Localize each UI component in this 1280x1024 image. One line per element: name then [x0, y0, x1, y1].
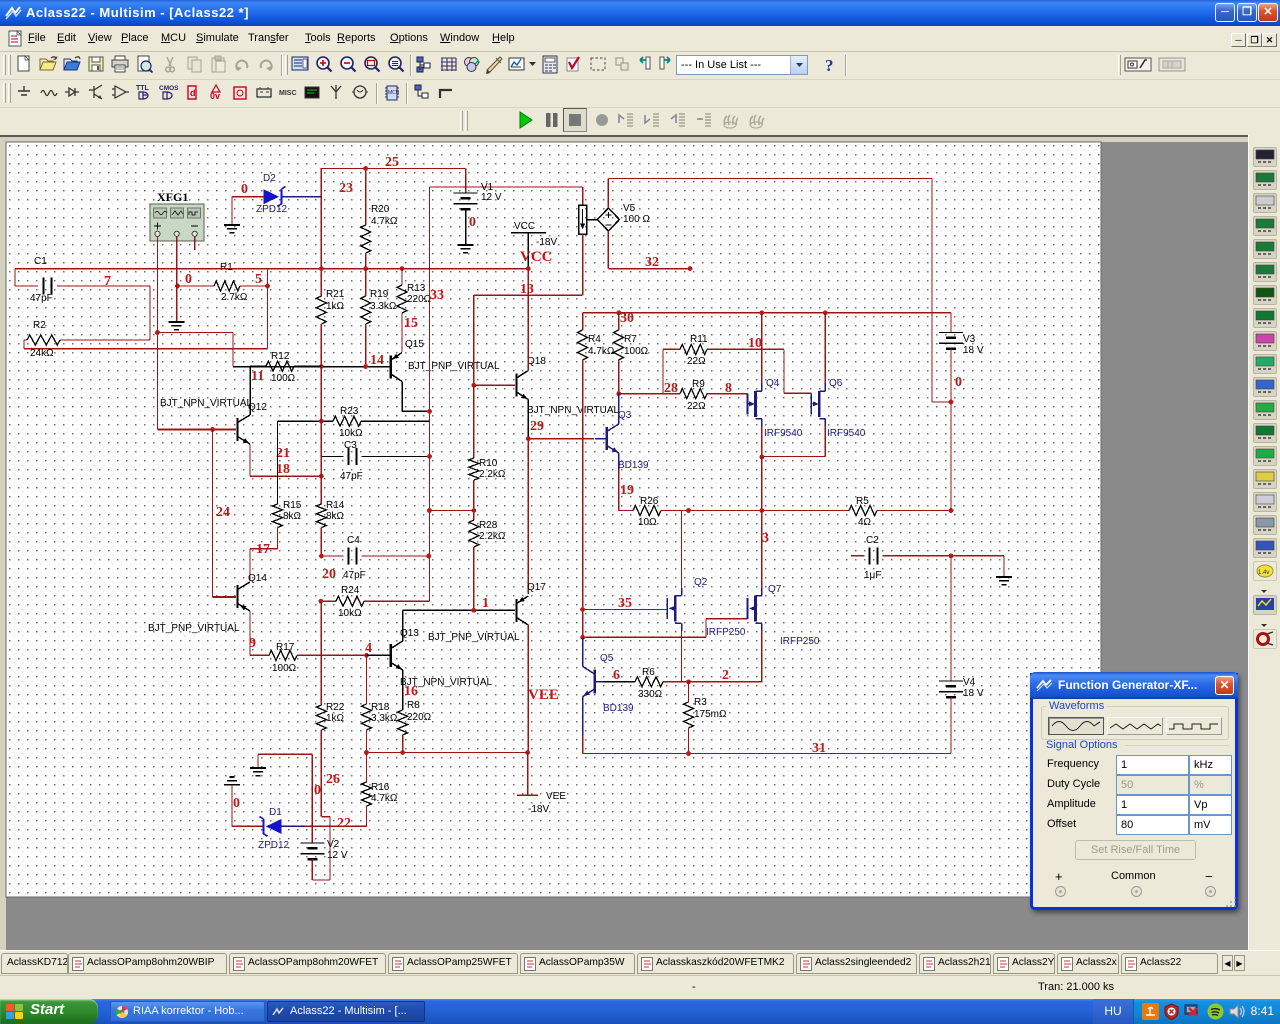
resistor R26 [619, 510, 633, 512]
junction at 761.8,510.5 [759, 508, 764, 513]
junction at 688.5,681.8 [686, 679, 691, 684]
svg-text:R19: R19 [370, 289, 389, 300]
svg-text:R12: R12 [271, 351, 290, 362]
svg-text:19: 19 [620, 483, 634, 498]
svg-text:Q6: Q6 [829, 378, 843, 389]
svg-text:R15: R15 [283, 500, 302, 511]
svg-text:10: 10 [748, 336, 762, 351]
svg-text:R11: R11 [690, 334, 708, 345]
svg-text:4Ω: 4Ω [858, 517, 872, 528]
svg-text:D1: D1 [269, 807, 282, 818]
svg-text:R20: R20 [371, 204, 390, 215]
svg-text:7: 7 [104, 274, 111, 289]
svg-text:R7: R7 [624, 334, 637, 345]
svg-text:18 V: 18 V [963, 345, 984, 356]
wire net 2 [689, 681, 762, 683]
svg-text:VCC: VCC [520, 249, 553, 265]
svg-text:Q7: Q7 [768, 584, 782, 595]
svg-text:0: 0 [314, 783, 321, 798]
svg-text:100Ω: 100Ω [272, 663, 297, 674]
resistor R3 [688, 682, 690, 702]
junction at 365.7,366.5 [363, 364, 368, 369]
svg-text:Q17: Q17 [527, 582, 546, 593]
ground symbol (C2) [996, 577, 1012, 585]
svg-text:100 Ω: 100 Ω [623, 214, 650, 225]
svg-text:Q5: Q5 [600, 653, 614, 664]
wire mid column (nets 21/20) [320, 367, 322, 505]
svg-text:R1: R1 [220, 262, 233, 273]
resistor R14 [316, 504, 326, 528]
junction at 177.5,286 [175, 284, 180, 289]
wire Q3 collector [618, 394, 620, 424]
svg-text:R24: R24 [341, 585, 360, 596]
junction at 761.8,457 [759, 455, 764, 460]
wire net 0 vcc rail horizontal [15, 268, 528, 270]
svg-text:BJT_PNP_VIRTUAL: BJT_PNP_VIRTUAL [428, 632, 520, 643]
junction at 321.4,421.2 [319, 419, 324, 424]
svg-text:2.2kΩ: 2.2kΩ [479, 469, 506, 480]
svg-text:0v: 0v [210, 91, 220, 101]
svg-text:BJT_NPN_VIRTUAL: BJT_NPN_VIRTUAL [160, 398, 253, 409]
junction at 527.6,752.5 [525, 750, 530, 755]
svg-text:R17: R17 [276, 642, 295, 653]
svg-text:15: 15 [404, 316, 418, 331]
svg-text:220Ω: 220Ω [407, 712, 432, 723]
svg-text:d: d [190, 88, 196, 98]
svg-text:R26: R26 [640, 496, 659, 507]
junction at 951,555.8 [949, 553, 954, 558]
ground symbol (D1 anode) [224, 777, 240, 785]
svg-text:VEE: VEE [528, 687, 559, 703]
svg-text:R6: R6 [642, 667, 655, 678]
junction at 320.9,601.2 [319, 599, 324, 604]
resistor R13 [401, 269, 403, 285]
svg-text:22: 22 [337, 816, 351, 831]
wire to ground at C2 [1003, 556, 1005, 577]
current sense box for V5 [582, 187, 584, 205]
resistor R18 [366, 655, 368, 704]
wire Q5 collector [582, 637, 584, 666]
svg-text:9: 9 [249, 636, 256, 651]
ground symbol (D2) [224, 225, 240, 233]
junction at 157.5,332.5 [155, 330, 160, 335]
resistor R11 and net 10 [663, 349, 811, 393]
svg-text:R14: R14 [326, 500, 345, 511]
junction at 951,402 [949, 400, 954, 405]
svg-text:R3: R3 [694, 697, 707, 708]
resistor R24 [321, 556, 430, 601]
resistor R19 [365, 269, 367, 296]
svg-text:32: 32 [645, 255, 659, 270]
wire net 7 loop top [15, 269, 268, 349]
junction at 825.4,312.8 [823, 310, 828, 315]
svg-text:BD139: BD139 [618, 460, 649, 471]
ground symbol (V2) [250, 768, 266, 776]
svg-text:10kΩ: 10kΩ [338, 608, 362, 619]
resistor R9 [680, 389, 707, 399]
wire Q13 collector to net 1 [402, 610, 404, 641]
wire XFG1 common terminal [176, 236, 178, 322]
svg-text:3.3kΩ: 3.3kΩ [371, 713, 398, 724]
wire ground feed for V2 [258, 754, 312, 768]
wire top rail to right column [608, 179, 951, 403]
svg-text:4.7kΩ: 4.7kΩ [371, 793, 398, 804]
svg-text:2.2kΩ: 2.2kΩ [479, 531, 506, 542]
svg-text:6: 6 [613, 668, 620, 683]
wire net 23 vertical [320, 169, 322, 295]
ground symbol (V1) [458, 245, 474, 253]
resistor R1 [178, 285, 268, 287]
resistor R12 [250, 365, 321, 367]
svg-text:12 V: 12 V [327, 850, 348, 861]
svg-text:4.7kΩ: 4.7kΩ [588, 346, 615, 357]
wire net 1 [403, 609, 515, 611]
zener diode D2 [264, 190, 278, 203]
junction at 473.9,510.5 [472, 508, 477, 513]
svg-text:17: 17 [256, 542, 270, 557]
svg-text:100Ω: 100Ω [271, 373, 296, 384]
svg-text:BJT_NPN_VIRTUAL: BJT_NPN_VIRTUAL [527, 405, 620, 416]
wire VEE rail line [367, 752, 528, 754]
svg-text:0: 0 [955, 375, 962, 390]
wire Q12 collector to R12 [249, 366, 251, 415]
transistor Q3 BD139 [528, 438, 594, 440]
svg-text:0: 0 [185, 272, 192, 287]
svg-text:1kΩ: 1kΩ [326, 301, 345, 312]
junction at 366.5,655.4 [364, 653, 369, 658]
svg-text:IRF9540: IRF9540 [764, 428, 803, 439]
svg-text:Q14: Q14 [248, 573, 267, 584]
svg-text:R21: R21 [326, 289, 345, 300]
svg-text:2.7kΩ: 2.7kΩ [221, 292, 248, 303]
resistor R7 [618, 313, 620, 330]
wire net 32 [608, 231, 690, 269]
svg-text:C4: C4 [347, 535, 360, 546]
svg-text:ZPD12: ZPD12 [258, 840, 290, 851]
function generator XFG1 [150, 204, 204, 241]
svg-text:8kΩ: 8kΩ [326, 511, 345, 522]
wire XFG1 minus stub [194, 236, 196, 250]
junction at 618.7,393.6 [616, 391, 621, 396]
svg-text:3: 3 [762, 531, 769, 546]
svg-text:R4: R4 [588, 334, 601, 345]
wire net 30 rail [583, 312, 951, 314]
svg-text:-18V: -18V [536, 237, 557, 248]
resistor R15 [277, 421, 279, 504]
svg-text:BJT_PNP_VIRTUAL: BJT_PNP_VIRTUAL [148, 623, 240, 634]
wire net 3 column [761, 457, 763, 511]
svg-text:30: 30 [620, 311, 634, 326]
wire XFG1 plus terminal to node 24 column [157, 236, 159, 429]
junction at 690,268.6 [688, 266, 693, 271]
svg-text:10Ω: 10Ω [638, 517, 657, 528]
svg-text:26: 26 [326, 772, 340, 787]
capacitor C4 [321, 555, 428, 557]
wire Q3 emitter to R26 [618, 453, 620, 470]
junction at 366.5,752.5 [364, 750, 369, 755]
wire V1 feed [430, 186, 583, 188]
svg-text:100Ω: 100Ω [624, 346, 649, 357]
junction at 688.5,510.5 [686, 508, 691, 513]
wire net 26 column with jog [312, 817, 330, 880]
junction at 473.9,610.3 [472, 608, 477, 613]
junction at 429.5,411.4 [427, 409, 432, 414]
svg-text:23: 23 [339, 181, 353, 196]
svg-text:11: 11 [251, 369, 264, 384]
svg-text:MCU: MCU [388, 90, 400, 96]
transistor Q5 BD139 [593, 670, 595, 694]
junction at 321.4,476.2 [319, 474, 324, 479]
battery V4 18V [950, 556, 952, 681]
wire Q5 emitter to rail 31 [582, 697, 584, 736]
svg-text:C1: C1 [34, 256, 47, 267]
svg-text:BJT_PNP_VIRTUAL: BJT_PNP_VIRTUAL [408, 361, 500, 372]
resistor R23 [278, 420, 430, 422]
svg-text:0: 0 [241, 182, 248, 197]
resistor R17 [269, 650, 297, 660]
PMOS Q6 IRF9540 [810, 393, 812, 414]
svg-text:24kΩ: 24kΩ [30, 348, 54, 359]
wire sense box to net 33 column [474, 234, 583, 385]
wire Q17 collector to VEE [527, 625, 529, 753]
svg-text:CMOS: CMOS [159, 85, 179, 92]
svg-text:35: 35 [618, 596, 632, 611]
svg-text:V4: V4 [963, 677, 976, 688]
svg-text:IRFP250: IRFP250 [780, 636, 820, 647]
junction at 321.4,366.5 [319, 364, 324, 369]
junction at 365.7,268.6 [363, 266, 368, 271]
ground under D2 wire [231, 197, 233, 225]
wire net 33 column [429, 187, 431, 601]
wire net 7 right leg [60, 286, 150, 340]
transistor Q18 BJT_NPN_VIRTUAL [474, 384, 515, 386]
svg-text:22Ω: 22Ω [687, 401, 706, 412]
junction at 473.9,385.3 [472, 383, 477, 388]
svg-text:0: 0 [233, 796, 240, 811]
resistor R16 [366, 753, 368, 783]
junction at 951,510.5 [949, 508, 954, 513]
svg-text:Q3: Q3 [618, 410, 632, 421]
resistor R8 [402, 670, 404, 710]
schematic sheet [6, 142, 1101, 897]
junction at 582.6,609.5 [580, 607, 585, 612]
battery V3 18V [950, 313, 952, 333]
ground symbol (XFG1) [169, 322, 185, 330]
svg-text:33: 33 [430, 288, 444, 303]
svg-text:R10: R10 [479, 458, 498, 469]
wire net 35 [583, 609, 668, 611]
svg-text:IRF9540: IRF9540 [827, 428, 866, 439]
wire link 33-column to R10 column [430, 510, 474, 512]
wire net 23 horizontal (D2 cathode) [232, 196, 264, 198]
svg-text:3.3kΩ: 3.3kΩ [370, 301, 397, 312]
svg-text:V5: V5 [623, 203, 636, 214]
svg-text:R22: R22 [326, 702, 345, 713]
junction at 582.6,637.3 [580, 635, 585, 640]
svg-text:24: 24 [216, 505, 230, 520]
transistor Q17 BJT_PNP_VIRTUAL [515, 599, 517, 622]
svg-text:8: 8 [725, 381, 732, 396]
transistor Q15 BJT_PNP_VIRTUAL [233, 366, 390, 368]
svg-text:V2: V2 [327, 839, 340, 850]
svg-text:BD139: BD139 [603, 703, 634, 714]
transistor Q13 BJT_PNP_VIRTUAL [367, 654, 390, 656]
svg-text:?: ? [825, 56, 834, 75]
wire net 25 down to V1 [465, 169, 467, 194]
PMOS Q4 IRF9540 [747, 393, 749, 414]
svg-text:Q2: Q2 [694, 577, 708, 588]
svg-text:C2: C2 [866, 535, 879, 546]
junction at 528.3,268.6 [526, 266, 531, 271]
svg-text:330Ω: 330Ω [638, 689, 663, 700]
resistor R20 [365, 169, 367, 269]
svg-text:16: 16 [404, 684, 418, 699]
junction at 618.7,312.8 [616, 310, 621, 315]
svg-text:VEE: VEE [546, 791, 566, 802]
resistor R22 [320, 601, 322, 705]
svg-text:TTL: TTL [136, 85, 150, 92]
wire net 28 / R9 row [619, 393, 748, 395]
resistor R6 / net 6 [603, 681, 635, 683]
junction at 429.5,456.4 [427, 454, 432, 459]
svg-text:12 V: 12 V [481, 192, 502, 203]
svg-text:2: 2 [722, 668, 729, 683]
svg-text:R23: R23 [340, 406, 359, 417]
svg-text:R28: R28 [479, 520, 498, 531]
capacitor C2 [851, 555, 1004, 557]
svg-text:28: 28 [664, 381, 678, 396]
svg-text:220Ω: 220Ω [407, 294, 432, 305]
resistor R2 [27, 335, 60, 345]
wire net 24 column [212, 430, 214, 598]
resistor R21 [320, 294, 322, 296]
capacitor C1 [15, 285, 150, 287]
svg-text:5: 5 [255, 272, 262, 287]
svg-text:C3: C3 [344, 440, 357, 451]
zener diode D1 [232, 825, 263, 827]
svg-text:47pF: 47pF [343, 570, 366, 581]
svg-text:R2: R2 [33, 320, 46, 331]
junction at 528.3,438.6 [526, 436, 531, 441]
dependent source V5 [587, 219, 598, 221]
junction at 761.8,510.5 [759, 508, 764, 513]
junction at 365.7,168.5 [363, 166, 368, 171]
wire Q7 gate feed [583, 619, 748, 637]
svg-text:IRFP250: IRFP250 [706, 627, 746, 638]
svg-text:R8: R8 [407, 700, 420, 711]
svg-text:25: 25 [385, 155, 399, 170]
svg-text:XFG1: XFG1 [157, 190, 188, 204]
svg-text:V3: V3 [963, 334, 976, 345]
svg-text:D2: D2 [263, 173, 276, 184]
wire 17 link to Q14 collector [250, 549, 278, 581]
svg-text:ZPD12: ZPD12 [256, 204, 288, 215]
svg-text:4: 4 [365, 641, 372, 656]
svg-text:175mΩ: 175mΩ [694, 709, 727, 720]
wire net 13 column through Q18 [527, 269, 529, 371]
junction at 402.6,752.5 [400, 750, 405, 755]
svg-text:R5: R5 [856, 496, 869, 507]
transistor Q14 BJT_PNP_VIRTUAL [213, 596, 237, 598]
VCC power rail symbol [511, 233, 546, 269]
resistor R5 [849, 506, 877, 516]
svg-text:0: 0 [469, 215, 476, 230]
battery V2 12V [311, 754, 313, 843]
battery V1 12V [454, 193, 478, 204]
wire net 25 [321, 168, 466, 170]
svg-text:47pF: 47pF [30, 293, 53, 304]
junction at 761.8,312.8 [759, 310, 764, 315]
svg-text:47pF: 47pF [340, 471, 363, 482]
resistor R28 [469, 520, 479, 547]
svg-text:1kΩ: 1kΩ [326, 713, 345, 724]
svg-text:MISC: MISC [279, 90, 297, 97]
junction at 402,268.6 [400, 266, 405, 271]
junction at 428.7,556 [426, 554, 431, 559]
wire Q12 emitter net 18 [250, 444, 321, 476]
svg-text:VCC: VCC [514, 221, 535, 232]
VEE rail symbol [517, 753, 538, 796]
NMOS Q2 IRFP250 [666, 598, 668, 619]
wire rail net 31 [583, 753, 951, 755]
junction at 212.5,429.5 [210, 427, 215, 432]
transistor Q12 BJT_NPN_VIRTUAL [158, 429, 237, 431]
svg-text:R9: R9 [692, 379, 705, 390]
svg-text:20: 20 [322, 567, 336, 582]
svg-text:8kΩ: 8kΩ [283, 511, 302, 522]
resistor R10 [473, 385, 475, 458]
svg-text:31: 31 [812, 741, 826, 756]
svg-text:Q4: Q4 [766, 378, 780, 389]
wire branch to Q15 base [158, 333, 234, 367]
svg-text:14: 14 [370, 353, 384, 368]
svg-text:R13: R13 [407, 283, 426, 294]
svg-text:4.7kΩ: 4.7kΩ [371, 216, 398, 227]
junction at 321.4,268.6 [319, 266, 324, 271]
svg-text:-18V: -18V [528, 804, 549, 815]
svg-text:R16: R16 [371, 782, 390, 793]
svg-text:22Ω: 22Ω [687, 356, 706, 367]
junction at 321.4,556 [319, 554, 324, 559]
svg-text:1μF: 1μF [864, 570, 881, 581]
wire Q14 emitter to R17 [250, 611, 269, 655]
svg-text:Q15: Q15 [405, 339, 424, 350]
svg-text:Q18: Q18 [527, 356, 546, 367]
NMOS Q7 IRFP250 [747, 598, 749, 619]
svg-text:1: 1 [482, 596, 489, 611]
wire V5 top to top rail [607, 179, 609, 209]
junction at 267.5,286 [265, 284, 270, 289]
svg-text:R18: R18 [371, 702, 390, 713]
svg-text:29: 29 [530, 419, 544, 434]
junction at 688.5,753.5 [686, 751, 691, 756]
resistor R4 [582, 313, 584, 330]
capacitor C3 [321, 455, 429, 457]
svg-text:10kΩ: 10kΩ [339, 428, 363, 439]
junction at 429.5,510.5 [427, 508, 432, 513]
svg-text:18 V: 18 V [963, 688, 984, 699]
svg-text:1.4v: 1.4v [1258, 570, 1269, 576]
